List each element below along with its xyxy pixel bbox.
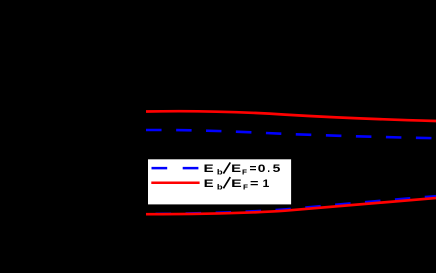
legend text row 2: Eb/EF=1 [204, 177, 270, 191]
curve: lower branch, Eb/EF=1 (red solid) [146, 198, 436, 214]
legend sample: blue dashed line [152, 167, 200, 170]
curve: upper branch, Eb/EF=0.5 (blue dashed) [146, 130, 436, 138]
svg-text:E: E [204, 178, 214, 190]
legend text row 1: Eb/EF=0.5 [204, 162, 281, 176]
legend box [147, 159, 291, 206]
svg-text:b: b [217, 168, 223, 177]
svg-text:E: E [231, 163, 241, 175]
svg-text:1: 1 [263, 178, 270, 190]
svg-text:.: . [267, 163, 270, 175]
svg-text:F: F [242, 168, 247, 177]
svg-text:=: = [250, 163, 257, 175]
curve: lower branch, Eb/EF=0.5 (blue dashed, overlaps red) [146, 196, 436, 214]
svg-text:=: = [250, 178, 259, 190]
svg-text:E: E [231, 178, 242, 190]
svg-text:F: F [243, 182, 248, 191]
svg-text:5: 5 [273, 163, 281, 175]
legend sample: red solid line [151, 181, 199, 184]
svg-text:0: 0 [258, 163, 266, 175]
svg-text:b: b [217, 182, 223, 191]
curve: upper branch, Eb/EF=1 (red solid) [146, 111, 436, 121]
svg-text:E: E [204, 163, 214, 175]
